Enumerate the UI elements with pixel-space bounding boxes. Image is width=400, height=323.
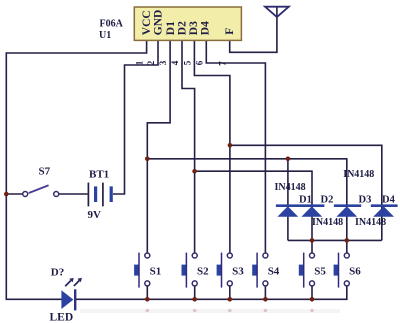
svg-text:4: 4 bbox=[170, 60, 180, 65]
svg-text:7: 7 bbox=[218, 61, 228, 66]
junction: node B on S1 wire bbox=[145, 157, 150, 162]
wire S4 bottom stub bbox=[264, 286, 266, 299]
button S6 contact bottom bbox=[344, 281, 349, 286]
wire D1 cathode riser and anode drop bbox=[287, 159, 289, 241]
button S5 actuator bar bbox=[303, 253, 305, 288]
svg-text:S6: S6 bbox=[349, 265, 361, 277]
junction: node C on S2 wire bbox=[192, 169, 197, 174]
svg-text:1: 1 bbox=[135, 60, 145, 65]
junction: D1 riser on node B bbox=[286, 157, 291, 162]
diode D1+D2 cathode bar bbox=[276, 204, 325, 207]
button S1 contact bottom bbox=[145, 281, 150, 286]
svg-text:VCC: VCC bbox=[141, 10, 153, 35]
button S1 actuator knob bbox=[134, 265, 139, 276]
button S5 actuator knob bbox=[299, 265, 304, 276]
button S1 actuator bar bbox=[138, 253, 140, 288]
svg-text:9V: 9V bbox=[88, 209, 102, 221]
svg-text:S2: S2 bbox=[197, 265, 209, 277]
svg-text:S7: S7 bbox=[39, 166, 51, 178]
wire pin6 to S4 bbox=[206, 40, 265, 253]
button S6 contact top bbox=[344, 253, 349, 258]
svg-text:D1: D1 bbox=[165, 21, 177, 35]
battery BT1 plate short 1 bbox=[94, 186, 97, 202]
wire pin4 to S2 bbox=[182, 40, 195, 253]
button S4 actuator bar bbox=[256, 253, 258, 288]
button S6 actuator bar bbox=[338, 253, 340, 288]
svg-text:D2: D2 bbox=[321, 194, 334, 205]
wire S2 bottom stub bbox=[194, 286, 196, 299]
svg-text:2: 2 bbox=[146, 60, 156, 65]
wire pin5 to S3 bbox=[194, 40, 230, 253]
wire node C: pin4 net to D2 cathode, down to S5 bbox=[195, 171, 312, 253]
svg-text:3: 3 bbox=[158, 60, 168, 65]
svg-text:IN4148: IN4148 bbox=[312, 217, 343, 228]
svg-text:IN4148: IN4148 bbox=[275, 182, 306, 193]
button S2 actuator bar bbox=[185, 253, 187, 288]
battery BT1 plate short 2 bbox=[110, 186, 113, 202]
svg-text:D1: D1 bbox=[299, 194, 312, 205]
diode D4 triangle bbox=[373, 206, 394, 217]
svg-text:D4: D4 bbox=[200, 21, 212, 35]
junction: D3 anode S6 bbox=[345, 238, 350, 243]
wire node B: pin3 net to D1 and D3 cathodes, down to S6 bbox=[147, 159, 346, 253]
button S4 contact bottom bbox=[263, 281, 268, 286]
antenna bbox=[265, 7, 289, 17]
svg-text:5: 5 bbox=[182, 60, 192, 65]
svg-text:D2: D2 bbox=[177, 21, 189, 35]
svg-text:S1: S1 bbox=[150, 265, 162, 277]
svg-text:IN4148: IN4148 bbox=[343, 169, 374, 180]
svg-text:IN4148: IN4148 bbox=[355, 217, 386, 228]
svg-text:D?: D? bbox=[51, 267, 64, 279]
diode D3 cathode bar bbox=[334, 204, 361, 207]
wire S5 bottom stub bbox=[311, 286, 313, 299]
battery BT1 plate long 2 bbox=[102, 183, 104, 207]
switch S7 contact left bbox=[23, 192, 28, 197]
wire pin7 F to antenna bbox=[230, 7, 277, 53]
diode D4 cathode bar bbox=[371, 204, 398, 207]
junction: node A on S3 wire bbox=[228, 143, 233, 148]
wire rail to switch S7 bbox=[6, 193, 22, 195]
LED arrow 1 bbox=[65, 280, 71, 286]
diode D1 triangle bbox=[277, 206, 298, 217]
svg-text:GND: GND bbox=[153, 10, 165, 36]
button S5 contact top bbox=[310, 253, 315, 258]
IC U1 body bbox=[134, 7, 241, 40]
button S3 contact bottom bbox=[227, 281, 232, 286]
button S6 actuator knob bbox=[334, 265, 339, 276]
junction: rail and S7 bbox=[4, 192, 9, 197]
svg-text:D3: D3 bbox=[359, 194, 372, 205]
wire node A: pin5 net to diode D4 cathode bbox=[230, 145, 382, 240]
button S2 contact top bbox=[192, 253, 197, 258]
switch S7 contact right bbox=[54, 192, 59, 197]
button S3 actuator bar bbox=[221, 253, 223, 288]
battery BT1 plate long 1 bbox=[87, 183, 89, 207]
switch S7 arm bbox=[29, 185, 49, 193]
junction: S4 on bus bbox=[263, 297, 268, 302]
button S4 actuator knob bbox=[252, 265, 257, 276]
LED cathode bar bbox=[74, 289, 76, 310]
svg-text:F: F bbox=[224, 28, 236, 35]
svg-text:S4: S4 bbox=[268, 265, 280, 277]
wire switch to battery bbox=[59, 193, 88, 195]
svg-text:D4: D4 bbox=[382, 194, 396, 205]
junction: S3 on bus bbox=[228, 297, 233, 302]
wire bottom bus bbox=[76, 286, 347, 299]
button S3 actuator knob bbox=[217, 265, 222, 276]
svg-text:F06A: F06A bbox=[100, 19, 124, 30]
junction: S1 on bus bbox=[145, 297, 150, 302]
LED D? triangle bbox=[61, 290, 73, 309]
svg-text:S3: S3 bbox=[232, 265, 244, 277]
wire pin3 to S1 bbox=[147, 40, 170, 253]
junction: S2 on bus bbox=[192, 297, 197, 302]
diode D2 triangle bbox=[301, 206, 322, 217]
scan smudge bottom bbox=[80, 309, 340, 313]
svg-text:D3: D3 bbox=[188, 21, 200, 35]
svg-text:BT1: BT1 bbox=[89, 168, 109, 180]
wire S3 bottom stub bbox=[229, 286, 231, 299]
button S4 contact top bbox=[263, 253, 268, 258]
diode D3 triangle bbox=[336, 206, 357, 217]
LED arrow 2 bbox=[74, 280, 80, 286]
svg-text:U1: U1 bbox=[99, 30, 111, 41]
svg-text:6: 6 bbox=[194, 60, 204, 65]
button S2 actuator knob bbox=[182, 265, 187, 276]
svg-text:S5: S5 bbox=[314, 265, 326, 277]
junction: S5 on bus bbox=[310, 297, 315, 302]
svg-text:LED: LED bbox=[50, 311, 74, 323]
wire GND: pin2 left and down to battery bbox=[113, 40, 158, 194]
button S5 contact bottom bbox=[310, 281, 315, 286]
button S2 contact bottom bbox=[192, 281, 197, 286]
button S3 contact top bbox=[227, 253, 232, 258]
wire VCC: pin1 to left rail, down to LED feed bbox=[6, 40, 146, 299]
junction: D1 D2 anodes S5 bbox=[310, 238, 315, 243]
wire anode rail to S5 S6 and D4 bbox=[288, 239, 382, 241]
button S1 contact top bbox=[145, 253, 150, 258]
wire S1 bottom stub bbox=[146, 286, 148, 299]
